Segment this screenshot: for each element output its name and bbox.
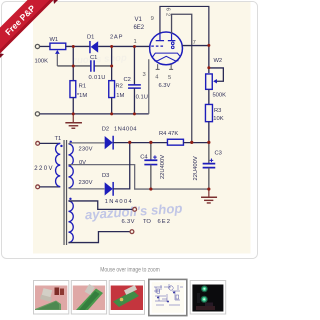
svg-text:230V: 230V [78, 180, 92, 186]
wire R1 to bottom rail [72, 98, 74, 114]
tube V1 internals [151, 33, 180, 61]
thumbnail 4 frame (selected) [149, 279, 187, 315]
svg-text:0.01U: 0.01U [88, 75, 105, 81]
svg-text:6.3V: 6.3V [158, 83, 170, 89]
wire pin2 bracket to HT rail [172, 14, 192, 142]
svg-text:22U400V: 22U400V [160, 155, 166, 179]
svg-text:R4: R4 [159, 131, 167, 137]
capacitor C2 [128, 85, 141, 88]
diode D3 [105, 182, 114, 196]
thumbnail 3 frame [109, 281, 144, 315]
svg-text:R3: R3 [214, 108, 221, 114]
svg-text:5: 5 [168, 75, 171, 81]
thumbnail 1 frame [34, 281, 69, 315]
svg-text:2: 2 [165, 13, 171, 16]
wire D3 up to HT rail [113, 142, 130, 189]
resistor R2 [109, 81, 115, 98]
svg-text:230V: 230V [78, 147, 92, 153]
junction dots lower section [128, 44, 210, 191]
wire junction column mid [111, 46, 113, 80]
svg-text:1N4004: 1N4004 [114, 126, 137, 132]
svg-text:C2: C2 [123, 77, 130, 83]
main image container frame [2, 2, 258, 259]
tube V1 envelope [150, 32, 183, 65]
svg-text:500K: 500K [212, 92, 226, 98]
svg-text:10K: 10K [213, 116, 223, 122]
junction dots top section [72, 45, 136, 115]
thumbnail 5 frame [190, 281, 226, 315]
svg-text:6: 6 [165, 8, 171, 11]
wire R2 to bottom rail [111, 98, 113, 114]
transformer T1 secondary HV winding [68, 144, 73, 188]
svg-text:R1: R1 [79, 83, 86, 89]
svg-text:TO: TO [143, 219, 151, 225]
svg-text:D3: D3 [102, 173, 109, 179]
svg-text:1: 1 [133, 39, 136, 45]
node heater terminal bottom [130, 230, 134, 234]
svg-text:R2: R2 [115, 83, 122, 89]
svg-text:6.3V: 6.3V [121, 219, 134, 225]
thumbnail 1 photo [35, 286, 67, 311]
potentiometer W1 [50, 43, 66, 66]
wire bottom input rail [40, 113, 149, 115]
node IN+ terminal [35, 44, 39, 48]
polarity dot primary [60, 145, 62, 147]
svg-text:*1M: *1M [77, 93, 87, 99]
svg-text:0.1U: 0.1U [136, 94, 148, 100]
svg-text:22U400V: 22U400V [193, 156, 199, 180]
transformer T1 core [64, 140, 67, 245]
svg-text:V1: V1 [134, 17, 142, 23]
wire D1 to tube pin1 [98, 45, 150, 47]
svg-text:3: 3 [142, 72, 145, 78]
svg-text:6E2: 6E2 [133, 25, 144, 31]
svg-text:220V: 220V [34, 166, 52, 172]
svg-text:47K: 47K [168, 131, 178, 137]
transformer T1 primary winding [56, 143, 61, 186]
capacitor C1 [91, 60, 94, 72]
svg-text:6E2: 6E2 [157, 219, 170, 225]
wire AC top lead [40, 142, 61, 144]
svg-text:D1: D1 [87, 34, 94, 40]
node AC terminal bottom [36, 185, 40, 189]
wire 230V bottom tap [68, 188, 104, 189]
svg-text:C3: C3 [214, 151, 221, 157]
thumbnail 2 frame [71, 281, 106, 315]
svg-text:C4: C4 [140, 154, 148, 160]
svg-text:100K: 100K [34, 59, 48, 65]
wire pin6 top bracket [160, 6, 209, 45]
wire heater lead bottom [68, 232, 130, 243]
svg-text:2AP: 2AP [110, 34, 123, 40]
wire C2 top lead [133, 46, 135, 84]
resistor R3 [205, 104, 212, 121]
capacitor C3 [203, 142, 216, 189]
wire 230V top tap [68, 143, 104, 144]
svg-text:W1: W1 [49, 37, 58, 43]
resistor R1 [70, 81, 76, 98]
svg-text:D2: D2 [102, 126, 109, 132]
transformer T1 heater winding [68, 201, 73, 243]
polarity dot secondary [70, 141, 72, 143]
wire R3 to HT rail [208, 122, 210, 143]
schematic cream background [33, 2, 251, 254]
wire W1 to D1 [66, 45, 90, 47]
svg-text:7: 7 [193, 40, 196, 46]
diode D2 [105, 136, 114, 150]
node AC terminal top [36, 141, 40, 145]
wire HT rail right of R4 [183, 142, 208, 144]
wire tube pin3 drop [148, 59, 150, 114]
svg-text:W2: W2 [213, 58, 222, 64]
thumbnail 2 photo [73, 284, 105, 310]
wire W2 to R3 [208, 89, 210, 104]
svg-text:Mouse over image to zoom: Mouse over image to zoom [100, 266, 160, 273]
tube pin 4 5 legs [156, 64, 174, 69]
ground (input) [65, 114, 82, 128]
potentiometer W2 [206, 68, 224, 89]
wire pin7 node to W2 [208, 45, 210, 73]
svg-text:1M: 1M [116, 93, 124, 99]
thumbnail 4 photo (schematic) [152, 282, 184, 313]
svg-text:C1: C1 [90, 55, 97, 61]
svg-text:T1: T1 [54, 136, 61, 142]
svg-text:9: 9 [151, 16, 154, 22]
svg-text:1N4004: 1N4004 [105, 199, 133, 205]
thumbnail 5 photo (dark tube glow) [192, 285, 223, 312]
capacitor C4 [144, 143, 157, 189]
wire junction column left [72, 46, 74, 80]
wire 0V tap to ground rail [68, 165, 208, 189]
node heater terminal top [133, 207, 137, 211]
wire C2 bottom lead [133, 88, 135, 114]
wire pin7 [182, 45, 209, 47]
polarity dot heater [69, 198, 71, 200]
resistor R4 [167, 139, 183, 145]
wire C1 rail [57, 65, 111, 67]
node IN- terminal [35, 112, 39, 116]
ribbon Free P&P [0, 0, 58, 58]
wire D2 to HT rail [113, 142, 167, 144]
wire AC bottom lead [40, 186, 61, 188]
thumbnail 3 photo [111, 285, 143, 310]
ground (main) [201, 189, 217, 203]
wire input top to W1 [40, 45, 50, 47]
wire heater lead top [68, 201, 132, 209]
diode D1 [90, 41, 98, 53]
